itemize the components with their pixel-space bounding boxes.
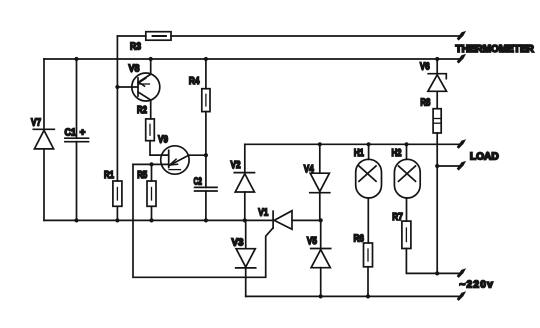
terminal arrow thermometer top	[457, 31, 466, 41]
wire R2 to V9 base	[150, 141, 169, 155]
wire V8 emitter to rail	[150, 59, 152, 74]
wire V9 collector to R4/C2 node	[189, 154, 206, 156]
terminal arrow 220v bottom	[457, 291, 466, 301]
capacitor C1	[65, 138, 89, 142]
wire H1 top	[368, 144, 370, 159]
wire left vertical column R3/V8-base/R1	[116, 36, 118, 181]
wire R3 to thermometer top terminal	[171, 35, 460, 37]
resistor R6	[364, 243, 373, 267]
node R1 bottom	[115, 218, 119, 222]
wire rail between V1 and V4 column	[292, 219, 321, 221]
node V2 V3	[243, 218, 247, 222]
node V4 V5	[319, 218, 323, 222]
node R4 C2 V9	[204, 153, 208, 157]
wire H2 top	[406, 144, 408, 159]
node R5 top	[149, 162, 153, 166]
wire R5 top stub	[151, 164, 153, 181]
node R4 top	[204, 57, 208, 61]
capacitor C2	[195, 187, 217, 191]
wire R1 bottom	[116, 206, 118, 220]
svg-text:R4: R4	[189, 76, 200, 87]
svg-text:V5: V5	[307, 236, 317, 247]
zener diode V6	[428, 74, 447, 92]
wire R6 bottom	[367, 267, 369, 297]
wire bottom-left rail	[44, 219, 273, 221]
svg-text:V3: V3	[232, 238, 244, 249]
terminal arrow load bottom	[457, 161, 466, 171]
wire R7 bottom to 220v top terminal	[406, 249, 459, 274]
resistor R7	[402, 221, 411, 248]
svg-text:C2: C2	[194, 176, 203, 187]
wire R5 bottom	[151, 206, 153, 220]
node H2 top	[404, 142, 408, 146]
svg-text:THERMOMETER: THERMOMETER	[456, 44, 535, 55]
svg-text:R6: R6	[354, 233, 365, 244]
svg-text:V9: V9	[158, 135, 168, 146]
wire V4 bottom	[319, 193, 321, 221]
svg-text:V2: V2	[231, 160, 241, 171]
wire V9 emitter line from gate node	[133, 163, 169, 165]
wire C2 bottom	[205, 191, 207, 220]
svg-text:V1: V1	[258, 208, 268, 219]
terminal arrow thermometer bottom	[457, 54, 466, 64]
node C1 bottom	[74, 218, 78, 222]
diode V3	[236, 249, 256, 268]
wire V5 bottom	[320, 268, 322, 297]
wire V7 column bottom	[43, 149, 45, 221]
svg-text:V8: V8	[129, 63, 140, 74]
svg-text:R8: R8	[420, 98, 430, 109]
svg-text:R5: R5	[137, 170, 147, 181]
wire V6 to R8	[436, 91, 438, 108]
wire bottom supply rail	[246, 295, 460, 297]
wire load bottom stub	[437, 165, 459, 167]
node load stub	[435, 164, 439, 168]
wire R4 bottom to C2	[205, 112, 207, 188]
wire V3 top	[245, 220, 247, 248]
wire R4 top	[205, 59, 207, 89]
resistor R3	[146, 32, 171, 41]
svg-text:~220v: ~220v	[459, 279, 493, 290]
transistor V9	[161, 146, 189, 174]
wire V5 top	[320, 220, 322, 248]
diode V4	[310, 173, 330, 193]
node C1 top	[74, 57, 78, 61]
svg-text:V6: V6	[420, 61, 430, 72]
node V5 bottom	[319, 294, 323, 298]
node R8 R7 220v	[435, 271, 439, 275]
node R6 bottom	[366, 294, 370, 298]
node H1 top	[367, 142, 371, 146]
svg-text:R3: R3	[130, 42, 141, 53]
lamp H2	[394, 159, 420, 198]
wire top supply rail	[44, 58, 460, 60]
wire V8 collector to R2	[150, 100, 152, 119]
wire V3 bottom	[245, 268, 247, 297]
resistor R1	[113, 181, 122, 206]
wire V6 top	[436, 59, 438, 74]
svg-text:H2: H2	[392, 148, 402, 159]
diode V2	[234, 173, 254, 192]
node C2 bottom	[204, 218, 208, 222]
wire R8 column down	[436, 133, 438, 273]
wire C1 column bottom	[76, 142, 78, 221]
transistor V8	[117, 73, 159, 101]
wire top line from left column to R3	[117, 35, 145, 37]
diode V5	[311, 249, 331, 268]
terminal arrow load top	[457, 139, 466, 149]
lamp H1	[356, 159, 382, 198]
wire load rail	[245, 143, 460, 145]
thyristor V1	[273, 211, 292, 230]
svg-text:+: +	[80, 127, 86, 138]
node V8 base	[115, 85, 119, 89]
wire H2 to R7	[406, 198, 408, 221]
resistor R8	[433, 109, 441, 133]
node V8 emitter rail	[149, 57, 153, 61]
wire gate path from V9 to V1 gate	[133, 164, 273, 277]
svg-text:LOAD: LOAD	[470, 152, 499, 163]
wire C1 column top	[76, 59, 78, 138]
node R5 bottom	[149, 218, 153, 222]
terminal arrow 220v top	[457, 268, 466, 278]
resistor R2	[146, 119, 155, 141]
svg-text:R1: R1	[104, 170, 114, 181]
svg-text:C1: C1	[65, 127, 77, 138]
resistor R5	[147, 181, 156, 206]
svg-text:H1: H1	[354, 148, 364, 159]
node V4 top	[318, 142, 322, 146]
wire V2 top	[244, 144, 246, 172]
svg-text:R7: R7	[392, 212, 403, 223]
svg-text:R2: R2	[137, 105, 147, 116]
diode V7	[33, 129, 54, 149]
wire H1 to R6	[367, 198, 369, 243]
node V6 top	[435, 57, 439, 61]
svg-text:V4: V4	[304, 164, 314, 175]
wire V7 column top	[43, 59, 45, 129]
resistor R4	[202, 89, 210, 112]
svg-text:V7: V7	[31, 117, 41, 128]
wire V2 bottom	[244, 192, 246, 220]
wire V4 top	[319, 144, 321, 173]
